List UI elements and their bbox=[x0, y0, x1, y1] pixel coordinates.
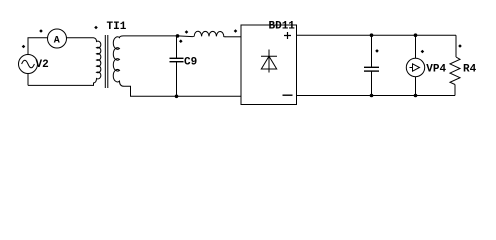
resistor R4 zigzag bbox=[450, 57, 460, 85]
filter capacitor (unlabeled) plate bottom bbox=[364, 70, 379, 72]
node plus mark near R4 bbox=[458, 44, 462, 48]
bridge minus sign bbox=[283, 94, 293, 96]
svg-text:TI1: TI1 bbox=[107, 21, 127, 33]
bridge rectifier BD11 box bbox=[241, 25, 297, 105]
resistor R4 bottom lead bbox=[454, 85, 456, 96]
node plus mark below junction bbox=[179, 39, 183, 43]
transformer core line left bbox=[104, 35, 106, 88]
filter capacitor (unlabeled) top stem bbox=[371, 35, 373, 67]
node plus mark near TI1 bbox=[94, 26, 98, 30]
resistor R4 top lead bbox=[455, 35, 457, 57]
wire junction to inductor bbox=[178, 35, 193, 38]
probe VP4 circle bbox=[406, 58, 424, 76]
filter capacitor (unlabeled) plate top bbox=[364, 66, 379, 68]
node plus mark near ammeter bbox=[39, 29, 43, 33]
bridge diode symbol bbox=[261, 50, 277, 73]
filter capacitor (unlabeled) bottom stem bbox=[371, 71, 373, 95]
svg-text:C9: C9 bbox=[184, 56, 197, 68]
svg-text:A: A bbox=[54, 35, 60, 46]
wire left bottom rail bbox=[28, 84, 94, 86]
node junction dot cap bottom bbox=[370, 94, 374, 98]
wire top rail right bbox=[297, 34, 457, 36]
wire V2 top riser bbox=[28, 38, 48, 55]
svg-text:R4: R4 bbox=[463, 64, 477, 76]
node plus mark near cap bbox=[375, 49, 379, 53]
capacitor C9 top stem bbox=[176, 36, 178, 58]
node junction dot VP4 top bbox=[414, 33, 418, 37]
wire ammeter to transformer bbox=[67, 37, 94, 39]
transformer core line right bbox=[107, 35, 109, 88]
wire secondary bottom step bbox=[124, 86, 241, 96]
probe VP4 top stem bbox=[415, 35, 417, 58]
probe VP4 bottom stem bbox=[415, 77, 417, 96]
svg-text:BD11: BD11 bbox=[269, 21, 296, 33]
node plus mark near VP4 bbox=[421, 50, 425, 54]
transformer TI1 secondary winding bbox=[113, 36, 124, 86]
inductor L1 bbox=[193, 31, 226, 37]
wire V2 bottom lead bbox=[27, 74, 29, 86]
ammeter U1 circle bbox=[48, 29, 67, 48]
source V2 sine bbox=[22, 60, 35, 68]
node junction dot C9 top bbox=[176, 34, 180, 38]
node junction dot VP4 bottom bbox=[414, 94, 418, 98]
wire inductor to bridge bbox=[225, 36, 241, 38]
wire secondary top to junction bbox=[124, 35, 178, 37]
svg-text:V2: V2 bbox=[36, 59, 49, 71]
source V2 circle bbox=[19, 55, 38, 74]
capacitor C9 bottom stem bbox=[176, 62, 178, 97]
svg-text:VP4: VP4 bbox=[426, 64, 446, 76]
node junction dot C9 bottom bbox=[175, 95, 179, 99]
node plus mark near V2 bbox=[22, 45, 26, 49]
wire bottom rail right bbox=[297, 95, 456, 97]
node junction dot cap top bbox=[370, 33, 374, 37]
capacitor C9 plate top bbox=[170, 57, 184, 59]
bridge plus sign bbox=[284, 32, 291, 39]
node plus mark right of inductor bbox=[234, 29, 238, 33]
capacitor C9 plate bottom bbox=[170, 61, 184, 63]
node plus mark right of junction top bbox=[185, 30, 189, 34]
probe VP4 arrow bbox=[410, 64, 420, 71]
transformer TI1 primary winding bbox=[94, 38, 101, 86]
